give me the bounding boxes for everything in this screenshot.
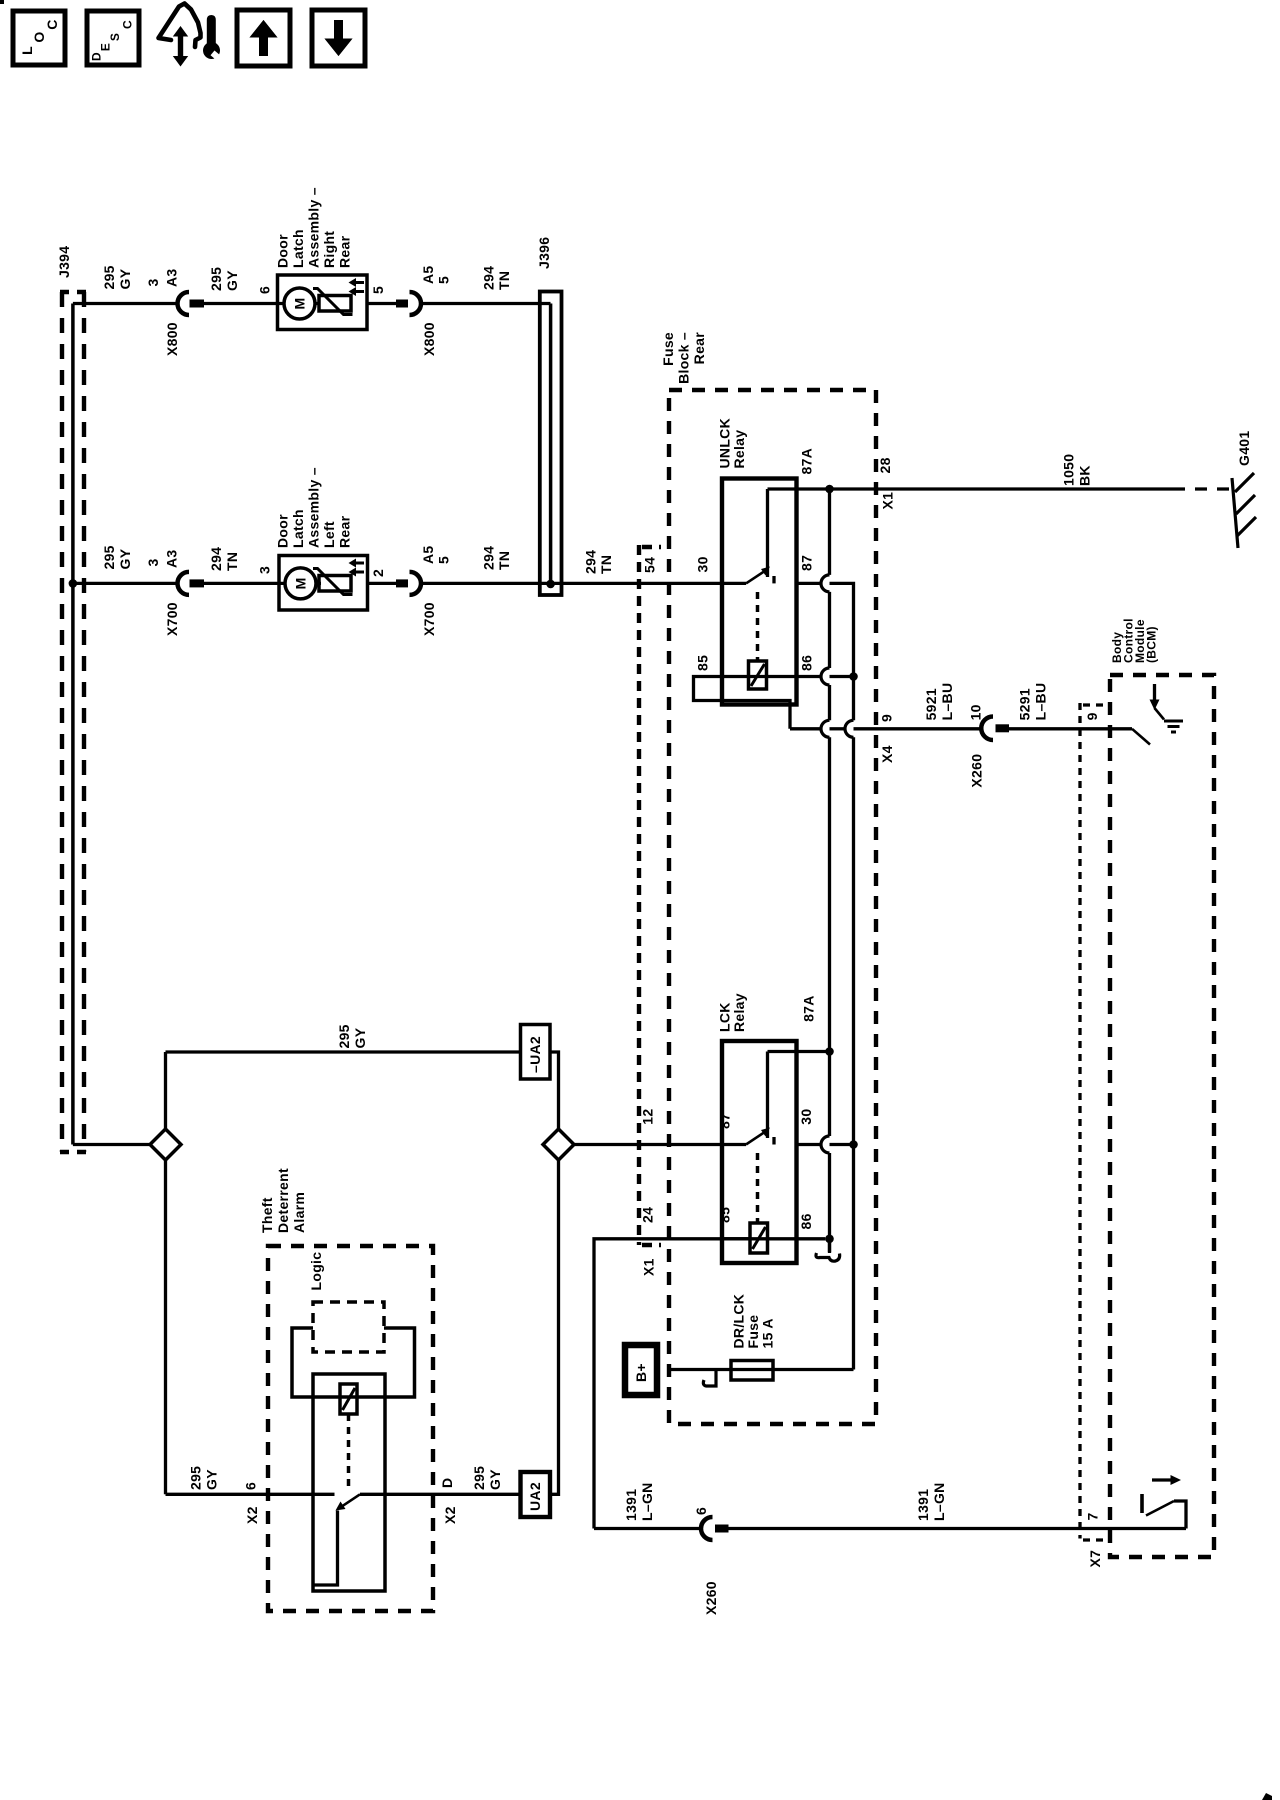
node junction dot 87A column [825, 485, 834, 494]
svg-text:54: 54 [642, 557, 658, 573]
motor M right rear latch [284, 288, 315, 319]
svg-text:3: 3 [145, 558, 161, 566]
wire from J394 bottom to splice diamond A [73, 1143, 150, 1146]
svg-text:X2: X2 [244, 1506, 260, 1524]
svg-text:X2: X2 [442, 1506, 458, 1524]
svg-text:24: 24 [640, 1207, 656, 1223]
svg-text:M: M [292, 298, 308, 310]
UNLCK relay switch blade [746, 572, 764, 584]
theft alarm switch blade [342, 1494, 360, 1506]
motor M left rear latch [285, 568, 316, 599]
BCM internal ground link [1155, 708, 1165, 720]
ground G401 symbol [1232, 473, 1256, 548]
svg-text:12: 12 [640, 1109, 656, 1125]
component box door latch assembly right rear [278, 275, 368, 330]
component box door latch assembly left rear [279, 556, 368, 611]
wire 294 TN row 2 latch to connector X700 right [368, 582, 397, 585]
icon vehicle with up-down arrow and wrench [159, 4, 226, 67]
splice pack J394 dashed shell bottom cap [60, 1150, 86, 1154]
fuse DR/LCK 15A body [731, 1361, 773, 1381]
wire 294 TN row 1 latch to connector X800 right [367, 302, 396, 305]
svg-text:87: 87 [799, 555, 815, 571]
LCK relay coil [750, 1223, 768, 1253]
connector X800 inline half row 1 [178, 292, 190, 315]
wire UNLCK 85 leg left and down to X4 row [694, 677, 791, 729]
svg-text:6: 6 [693, 1507, 709, 1515]
label B+ feed box [625, 1345, 657, 1395]
icon button DESC [87, 11, 139, 65]
connector X7 dashed face line [1078, 703, 1081, 1539]
svg-text:86: 86 [798, 1213, 814, 1229]
wire from -UA2 to splice diamond B [550, 1052, 559, 1129]
wire stub motor to PTC row 2 [316, 582, 321, 585]
connector X1 face bottom cap [642, 1243, 661, 1247]
node junction dot 86 and column B [849, 672, 858, 681]
wire 5291 L-BU to BCM [1009, 727, 1132, 730]
UNLCK relay 87A link to box edge [768, 487, 797, 490]
wire LCK 30 output [797, 1143, 821, 1146]
wire LCK 30 continues to column B [830, 1143, 854, 1146]
svg-text:X7: X7 [1087, 1550, 1103, 1568]
LCK relay switch blade [746, 1133, 764, 1145]
svg-text:J394: J394 [56, 246, 72, 278]
column A continues below LCK 87A [828, 1052, 831, 1254]
wire LCK 86 output [797, 1237, 826, 1240]
wire X4 row between columns [830, 727, 845, 730]
connector X700 inline half right row 2 [396, 579, 408, 587]
svg-text:Logic: Logic [308, 1252, 324, 1291]
svg-text:6: 6 [257, 286, 273, 294]
node junction dot LCK 30 column B [849, 1140, 858, 1149]
wire diamond A down to theft alarm row [164, 1160, 167, 1494]
svg-text:295GY: 295GY [336, 1024, 368, 1048]
dashed box logic [313, 1302, 384, 1352]
page corner mark top-left [0, 0, 4, 4]
wire 294 TN row 2 from X700 to door latch [204, 582, 285, 585]
theft alarm coil drive frame [292, 1328, 415, 1397]
UNLCK relay coil [749, 661, 767, 689]
fuse feed terminal clip [703, 1370, 716, 1387]
svg-text:10: 10 [968, 704, 984, 720]
LCK relay coil actuation dashed link [756, 1153, 760, 1222]
svg-text:3: 3 [257, 566, 273, 574]
svg-text:X260: X260 [969, 754, 985, 788]
wire X4 row to fuse block edge [854, 727, 982, 730]
wire 295 GY row 1 from J394 to connector X800 [73, 302, 177, 305]
LCK relay 30 contact stub [772, 1137, 775, 1145]
wire LCK 85 left leg [594, 1239, 750, 1529]
wire 1391 L-GN to connector X260 [594, 1527, 701, 1530]
svg-text:X260: X260 [703, 1581, 719, 1615]
page corner mark bottom-right [1262, 1793, 1272, 1800]
svg-text:C: C [121, 20, 135, 29]
theft alarm relay coil [340, 1384, 357, 1414]
wire LCK 87A output to column A end [797, 1050, 830, 1053]
node junction dot J396 at row 2 [546, 580, 555, 589]
wire B plus feed to fuse [668, 1368, 731, 1371]
svg-text:87A: 87A [799, 448, 815, 475]
LCK relay 87A contact lead [766, 1052, 769, 1139]
svg-text:D: D [90, 52, 104, 61]
svg-text:5921L–BU: 5921L–BU [923, 683, 955, 721]
svg-text:30: 30 [798, 1109, 814, 1125]
svg-text:X800: X800 [164, 322, 180, 356]
wire 295 GY row 1 from X800 to door latch [204, 302, 285, 305]
connector X800 inline half right row 1 [396, 300, 408, 308]
svg-text:30: 30 [695, 556, 711, 572]
wire fuse output to column B [773, 1368, 854, 1371]
connector X260 lower inline [701, 1517, 713, 1540]
wire UNLCK 86 output [797, 675, 821, 678]
svg-text:G401: G401 [1236, 431, 1252, 466]
connector X260 upper inline [981, 717, 993, 741]
theft alarm switch lower contact line [313, 1511, 338, 1586]
wire 295 GY loop top left vertical [164, 1052, 167, 1129]
node junction dot LCK 86 column A [825, 1235, 834, 1244]
BCM lock switch action arrow [1152, 1478, 1171, 1481]
UNLCK relay 87 contact stub [772, 576, 775, 583]
PTC thermistor left rear latch [319, 576, 351, 592]
svg-text:295GY: 295GY [471, 1466, 503, 1490]
svg-text:295GY: 295GY [208, 267, 240, 291]
socket arc 87 on column A [821, 575, 830, 592]
svg-text:5291L–BU: 5291L–BU [1017, 683, 1049, 721]
svg-text:UA2: UA2 [527, 1482, 543, 1511]
ground stack inside BCM [1164, 721, 1183, 732]
splice pack J394 dashed shell right wall [82, 292, 86, 1152]
socket arc X4 row on column B [845, 720, 854, 737]
column A vertical 87A to LCK 87A [828, 489, 831, 1052]
svg-text:295GY: 295GY [101, 545, 133, 569]
wire 294 TN row 1 to splice J396 [422, 302, 551, 305]
wire diamond B to LCK relay pin 87 [574, 1143, 722, 1146]
socket arc LCK 30 on column A [821, 1136, 830, 1153]
icon button scroll down [312, 10, 365, 66]
splice pack J394 dashed shell top cap [60, 290, 86, 294]
connector X1 dashed face line [637, 545, 641, 1245]
UNLCK relay pin 30 internal lead [722, 582, 746, 585]
component dashed box theft deterrent alarm [268, 1246, 433, 1611]
wire UNLCK 87A output [797, 487, 1174, 490]
svg-text:A5: A5 [420, 546, 436, 565]
svg-text:X1: X1 [880, 492, 896, 510]
BCM internal ground arrow [1153, 684, 1156, 701]
BCM lock switch contact bar [1140, 1494, 1144, 1513]
icon button scroll up [237, 10, 290, 66]
svg-text:3: 3 [145, 278, 161, 286]
node junction dot LCK 87A column A [825, 1047, 834, 1056]
splice diamond A [150, 1129, 181, 1160]
splice diamond B [543, 1129, 574, 1160]
wire UA2 up to diamond B [550, 1160, 559, 1494]
svg-text:–UA2: –UA2 [527, 1036, 543, 1073]
connector X7 face top cap [1083, 703, 1104, 706]
svg-text:C: C [44, 19, 60, 29]
LCK relay coil wire 85 to 86 [722, 1237, 797, 1240]
column B vertical 86 to fuse [852, 677, 855, 1370]
double arrows actuator direction row 2 [355, 563, 364, 572]
svg-text:85: 85 [717, 1207, 733, 1223]
connector X700 inline half row 2 [178, 572, 190, 595]
BCM lock switch blade [1146, 1501, 1174, 1516]
svg-text:6: 6 [243, 1482, 259, 1490]
svg-text:X4: X4 [879, 745, 895, 763]
PTC thermistor right rear latch [319, 296, 351, 312]
wire 1391 L-GN to BCM X7 [729, 1527, 1187, 1530]
node junction dot on J394 conductor at row 2 [69, 579, 78, 588]
UNLCK relay 87A contact lead [766, 489, 769, 577]
svg-text:9: 9 [1084, 712, 1100, 720]
UNLCK relay coil actuation dashed link [756, 592, 760, 660]
svg-text:87: 87 [717, 1113, 733, 1129]
BCM internal switch blade to ground [1132, 729, 1150, 745]
wire UNLCK 87 output to down column [797, 582, 821, 585]
svg-text:5: 5 [370, 286, 386, 294]
relay box LCK [722, 1041, 797, 1263]
connector X7 face bottom cap [1083, 1538, 1104, 1541]
svg-text:295GY: 295GY [101, 265, 133, 289]
wire theft alarm switch to UA2 [360, 1493, 521, 1496]
socket arc X4 row on column A [821, 720, 830, 737]
svg-text:S: S [108, 33, 122, 41]
wire 295 GY row 2 from J394 to connector X700 [73, 582, 177, 585]
UNLCK relay coil wire 85 to 86 [722, 675, 797, 678]
splice J396 internal conductor [549, 304, 553, 584]
double arrows actuator direction row 1 [355, 283, 364, 292]
wire 295 GY to theft alarm switch [166, 1493, 335, 1496]
svg-text:L: L [19, 46, 35, 55]
splice label box UA2 [521, 1472, 551, 1517]
theft alarm coil actuation dashed link [347, 1414, 351, 1488]
svg-text:A3: A3 [164, 550, 180, 569]
wire 87 continues to column B [830, 583, 854, 676]
component dashed box fuse block rear [669, 390, 876, 1424]
wire X4 row inside fuse block [790, 727, 821, 730]
column A tail below LCK 86 with terminal clip [828, 1239, 831, 1252]
LCK relay pin 87 internal lead [722, 1143, 746, 1146]
splice pack J394 dashed shell left wall [60, 292, 64, 1152]
svg-text:O: O [31, 31, 47, 42]
wire 1050 BK dashed segment to ground [1173, 487, 1237, 490]
svg-text:7: 7 [1085, 1512, 1101, 1520]
icon button LOC [13, 11, 65, 65]
svg-text:E: E [99, 43, 113, 51]
svg-text:A3: A3 [164, 269, 180, 288]
svg-text:J396: J396 [536, 237, 552, 269]
svg-text:295GY: 295GY [188, 1466, 220, 1490]
wire 86 continues to column B junction [830, 675, 854, 678]
wire 295 GY loop top horizontal [166, 1050, 521, 1053]
svg-text:87A: 87A [801, 995, 817, 1022]
splice pack J396 shell [540, 292, 562, 596]
relay box UNLCK [722, 479, 797, 705]
wire stub motor to PTC row 1 [315, 302, 320, 305]
connector X1 face top cap [642, 545, 661, 549]
component dashed box body control module [1110, 675, 1214, 1557]
svg-text:X700: X700 [421, 602, 437, 636]
BCM lock switch riser [1174, 1501, 1186, 1529]
svg-text:9: 9 [879, 714, 895, 722]
svg-text:D: D [439, 1478, 455, 1488]
svg-text:B+: B+ [633, 1363, 649, 1382]
svg-text:X800: X800 [421, 322, 437, 356]
svg-text:X1: X1 [641, 1258, 657, 1276]
svg-text:5: 5 [436, 276, 452, 284]
svg-text:M: M [293, 577, 309, 589]
svg-text:86: 86 [799, 655, 815, 671]
socket arc 86 on column A [821, 668, 830, 685]
svg-text:A5: A5 [420, 266, 436, 285]
svg-text:5: 5 [436, 556, 452, 564]
svg-text:2: 2 [370, 569, 386, 577]
wire 294 TN row 2 through J396 toward fuse block [422, 582, 723, 585]
LCK relay 87A link to box edge [768, 1050, 797, 1053]
svg-text:85: 85 [695, 655, 711, 671]
svg-text:28: 28 [877, 457, 893, 473]
splice label box -UA2 [521, 1025, 551, 1080]
theft alarm switch enclosure [313, 1374, 385, 1591]
svg-text:X700: X700 [164, 602, 180, 636]
wire 295 GY bus conductor inside J394 [71, 304, 75, 1145]
